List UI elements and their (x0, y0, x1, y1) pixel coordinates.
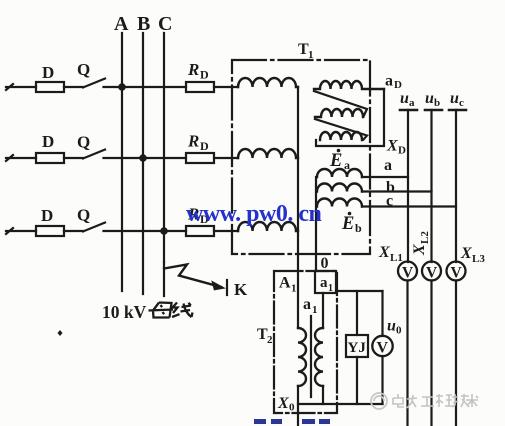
wire RD3 to T1 (214, 230, 238, 232)
svg-text:R: R (187, 132, 199, 151)
svg-text:E: E (329, 151, 342, 171)
wire phase b tap (362, 190, 432, 192)
bus C (163, 33, 165, 262)
svg-text:1: 1 (312, 304, 318, 316)
bus B (142, 33, 144, 294)
wire to V0 (381, 291, 383, 336)
svg-text:a: a (385, 73, 393, 90)
transformer T2 enclosure (274, 271, 337, 413)
svg-text:a: a (320, 275, 328, 291)
wire star secondary neutral (315, 177, 317, 271)
wire ua (407, 110, 409, 262)
T1 delta diagonal 1 (314, 91, 367, 117)
svg-text:b: b (355, 221, 362, 235)
svg-text:10 kV: 10 kV (102, 302, 147, 322)
fuse D3 (36, 226, 64, 236)
svg-text:u: u (387, 318, 396, 335)
junction dot C (160, 227, 168, 235)
svg-text:Q: Q (77, 206, 90, 225)
svg-text:V: V (377, 340, 389, 357)
wire to YJ (356, 291, 358, 335)
wire T2 primary bottom (297, 386, 299, 426)
label XL2 rotated (411, 231, 431, 256)
svg-text:D: D (42, 63, 54, 82)
T2 core (310, 316, 312, 397)
svg-text:X: X (460, 245, 472, 262)
svg-text:0: 0 (289, 402, 295, 414)
svg-text:2: 2 (267, 334, 273, 346)
T1 delta winding coil 2 (315, 109, 363, 117)
wire Q1 to bus A (104, 86, 187, 88)
T1 primary winding phase B (238, 149, 298, 158)
fuse D2 (36, 153, 64, 163)
T1 delta winding coil 1 (314, 81, 384, 89)
watermark hanzi text (393, 394, 478, 408)
wire RD2 to T1 (214, 157, 238, 159)
junction dot A (118, 83, 126, 91)
T1 star secondary coil a (317, 169, 362, 177)
svg-text:a: a (303, 296, 311, 313)
svg-text:1: 1 (308, 49, 314, 61)
hanzi xian (busbar) (172, 303, 193, 318)
svg-text:0: 0 (321, 255, 329, 272)
artifact dot (58, 330, 63, 336)
voltmeter V1 (398, 262, 417, 281)
svg-text:V: V (426, 265, 438, 282)
hanzi mu (busbar) (149, 303, 174, 318)
svg-text:b: b (434, 97, 440, 109)
svg-text:u: u (400, 90, 409, 107)
wire V3 down (455, 281, 457, 426)
terminal bar ua (400, 109, 417, 112)
svg-text:R: R (187, 60, 199, 79)
resistor RD3 (186, 226, 214, 236)
wire feeder 1 left (6, 84, 36, 90)
svg-text:D: D (200, 68, 209, 82)
wire feeder 2 left (6, 155, 36, 161)
terminal box a1 (315, 271, 336, 293)
watermark logo (371, 393, 387, 409)
wire V0 down (381, 356, 383, 404)
resistor RD1 (186, 82, 214, 92)
terminal bar uc (449, 109, 466, 112)
svg-text:a: a (384, 157, 392, 174)
wire delta bottom (316, 89, 384, 146)
svg-text:Q: Q (77, 60, 90, 79)
svg-text:X: X (411, 244, 428, 256)
fuse D1 (36, 82, 64, 92)
wire D2 to Q2 (64, 157, 83, 159)
T1 delta winding coil 3 (320, 132, 362, 140)
T1 delta diagonal 2 (315, 119, 367, 140)
switch Q2 (83, 150, 105, 159)
svg-text:K: K (234, 280, 248, 299)
svg-text:V: V (402, 265, 414, 282)
svg-text:YJ: YJ (348, 340, 367, 356)
svg-text:D: D (200, 139, 209, 153)
arrowhead fault (213, 282, 224, 290)
svg-text:C: C (158, 13, 172, 35)
wire D3 to Q3 (64, 230, 83, 232)
svg-text:L3: L3 (472, 253, 485, 265)
bus A (121, 33, 123, 291)
T2 primary winding (298, 328, 306, 386)
wire ub (430, 110, 432, 262)
wire V2 down (430, 281, 432, 426)
svg-text:E: E (341, 214, 354, 234)
svg-text:c: c (459, 97, 464, 109)
svg-text:D: D (41, 206, 53, 225)
voltmeter V3 (447, 262, 466, 281)
wire feeder 3 left (6, 228, 36, 234)
wire a1 to meters (336, 290, 383, 292)
svg-text:c: c (386, 193, 393, 210)
switch Q3 (83, 223, 105, 232)
svg-text:D: D (42, 132, 54, 151)
svg-text:u: u (450, 90, 459, 107)
svg-text:B: B (137, 13, 150, 35)
T1 star secondary coil c (317, 199, 362, 207)
wire Q3 to bus C (104, 230, 187, 232)
transformer T1 enclosure (232, 60, 370, 254)
junction dot B (139, 154, 147, 162)
T1 primary winding phase C (238, 222, 298, 231)
wire T2 secondary top (322, 293, 324, 328)
wire YJ down (356, 357, 358, 404)
wire phase c tap (362, 205, 456, 207)
terminal bar ub (425, 109, 442, 112)
svg-text:A: A (279, 275, 291, 292)
T1 star secondary coil b (317, 184, 362, 192)
voltmeter V2 (422, 262, 441, 281)
svg-text:Q: Q (77, 133, 90, 152)
fault point tick (226, 280, 228, 295)
svg-text:www. pw0. cn: www. pw0. cn (186, 201, 322, 227)
blue watermark dashes (254, 419, 330, 424)
svg-text:V: V (451, 265, 463, 282)
T1 primary winding phase A (238, 78, 298, 87)
wire Q2 to bus B (104, 157, 187, 159)
voltmeter V0 (372, 336, 392, 356)
switch Q1 (83, 79, 105, 88)
svg-text:1: 1 (328, 283, 333, 294)
svg-text:a: a (409, 97, 415, 109)
svg-text:X: X (386, 138, 398, 155)
svg-text:A: A (114, 13, 129, 35)
wire D1 to Q1 (64, 86, 83, 88)
resistor RD2 (186, 153, 214, 163)
svg-text:L2: L2 (419, 231, 431, 244)
svg-text:u: u (425, 90, 434, 107)
fault lightning arrow (164, 265, 221, 288)
svg-text:1: 1 (291, 283, 297, 295)
T2 secondary winding (315, 328, 323, 386)
wire V1 down (406, 281, 408, 426)
wire phase a tap (362, 176, 408, 178)
svg-text:X: X (277, 395, 289, 412)
wire bottom bus (298, 403, 383, 405)
svg-text:X: X (378, 244, 390, 261)
svg-text:a: a (344, 158, 350, 172)
wire T1 primary star point to T2 (297, 87, 299, 328)
wire bus C lower (163, 262, 165, 296)
svg-text:L1: L1 (390, 252, 403, 264)
wire uc (455, 110, 457, 262)
svg-text:0: 0 (396, 325, 402, 337)
wire RD1 to T1 (214, 86, 238, 88)
svg-text:D: D (398, 145, 406, 157)
relay YJ (346, 335, 368, 357)
wire T2 secondary bottom (322, 386, 324, 404)
